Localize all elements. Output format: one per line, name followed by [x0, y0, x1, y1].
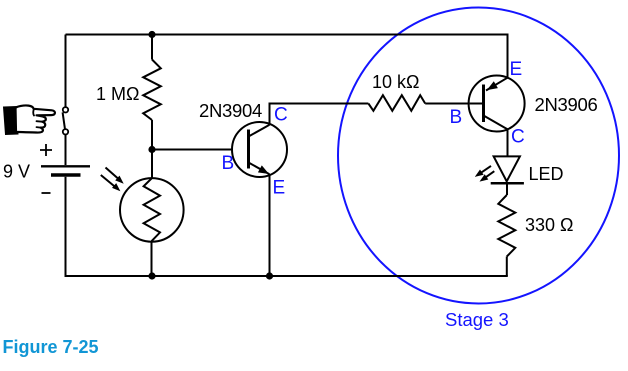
svg-text:Stage 3: Stage 3: [445, 309, 509, 330]
svg-text:B: B: [450, 107, 463, 128]
svg-text:Figure 7-25: Figure 7-25: [3, 337, 99, 357]
svg-text:1 MΩ: 1 MΩ: [96, 84, 139, 104]
svg-text:9 V: 9 V: [3, 162, 30, 182]
svg-text:E: E: [510, 59, 523, 80]
svg-text:C: C: [511, 127, 525, 148]
svg-text:B: B: [222, 153, 235, 174]
svg-text:10 kΩ: 10 kΩ: [372, 72, 419, 92]
svg-text:2N3904: 2N3904: [199, 100, 262, 121]
svg-text:2N3906: 2N3906: [535, 94, 598, 115]
svg-text:330 Ω: 330 Ω: [525, 215, 574, 235]
svg-text:E: E: [273, 178, 286, 199]
svg-text:LED: LED: [529, 164, 564, 184]
svg-text:C: C: [274, 105, 288, 126]
